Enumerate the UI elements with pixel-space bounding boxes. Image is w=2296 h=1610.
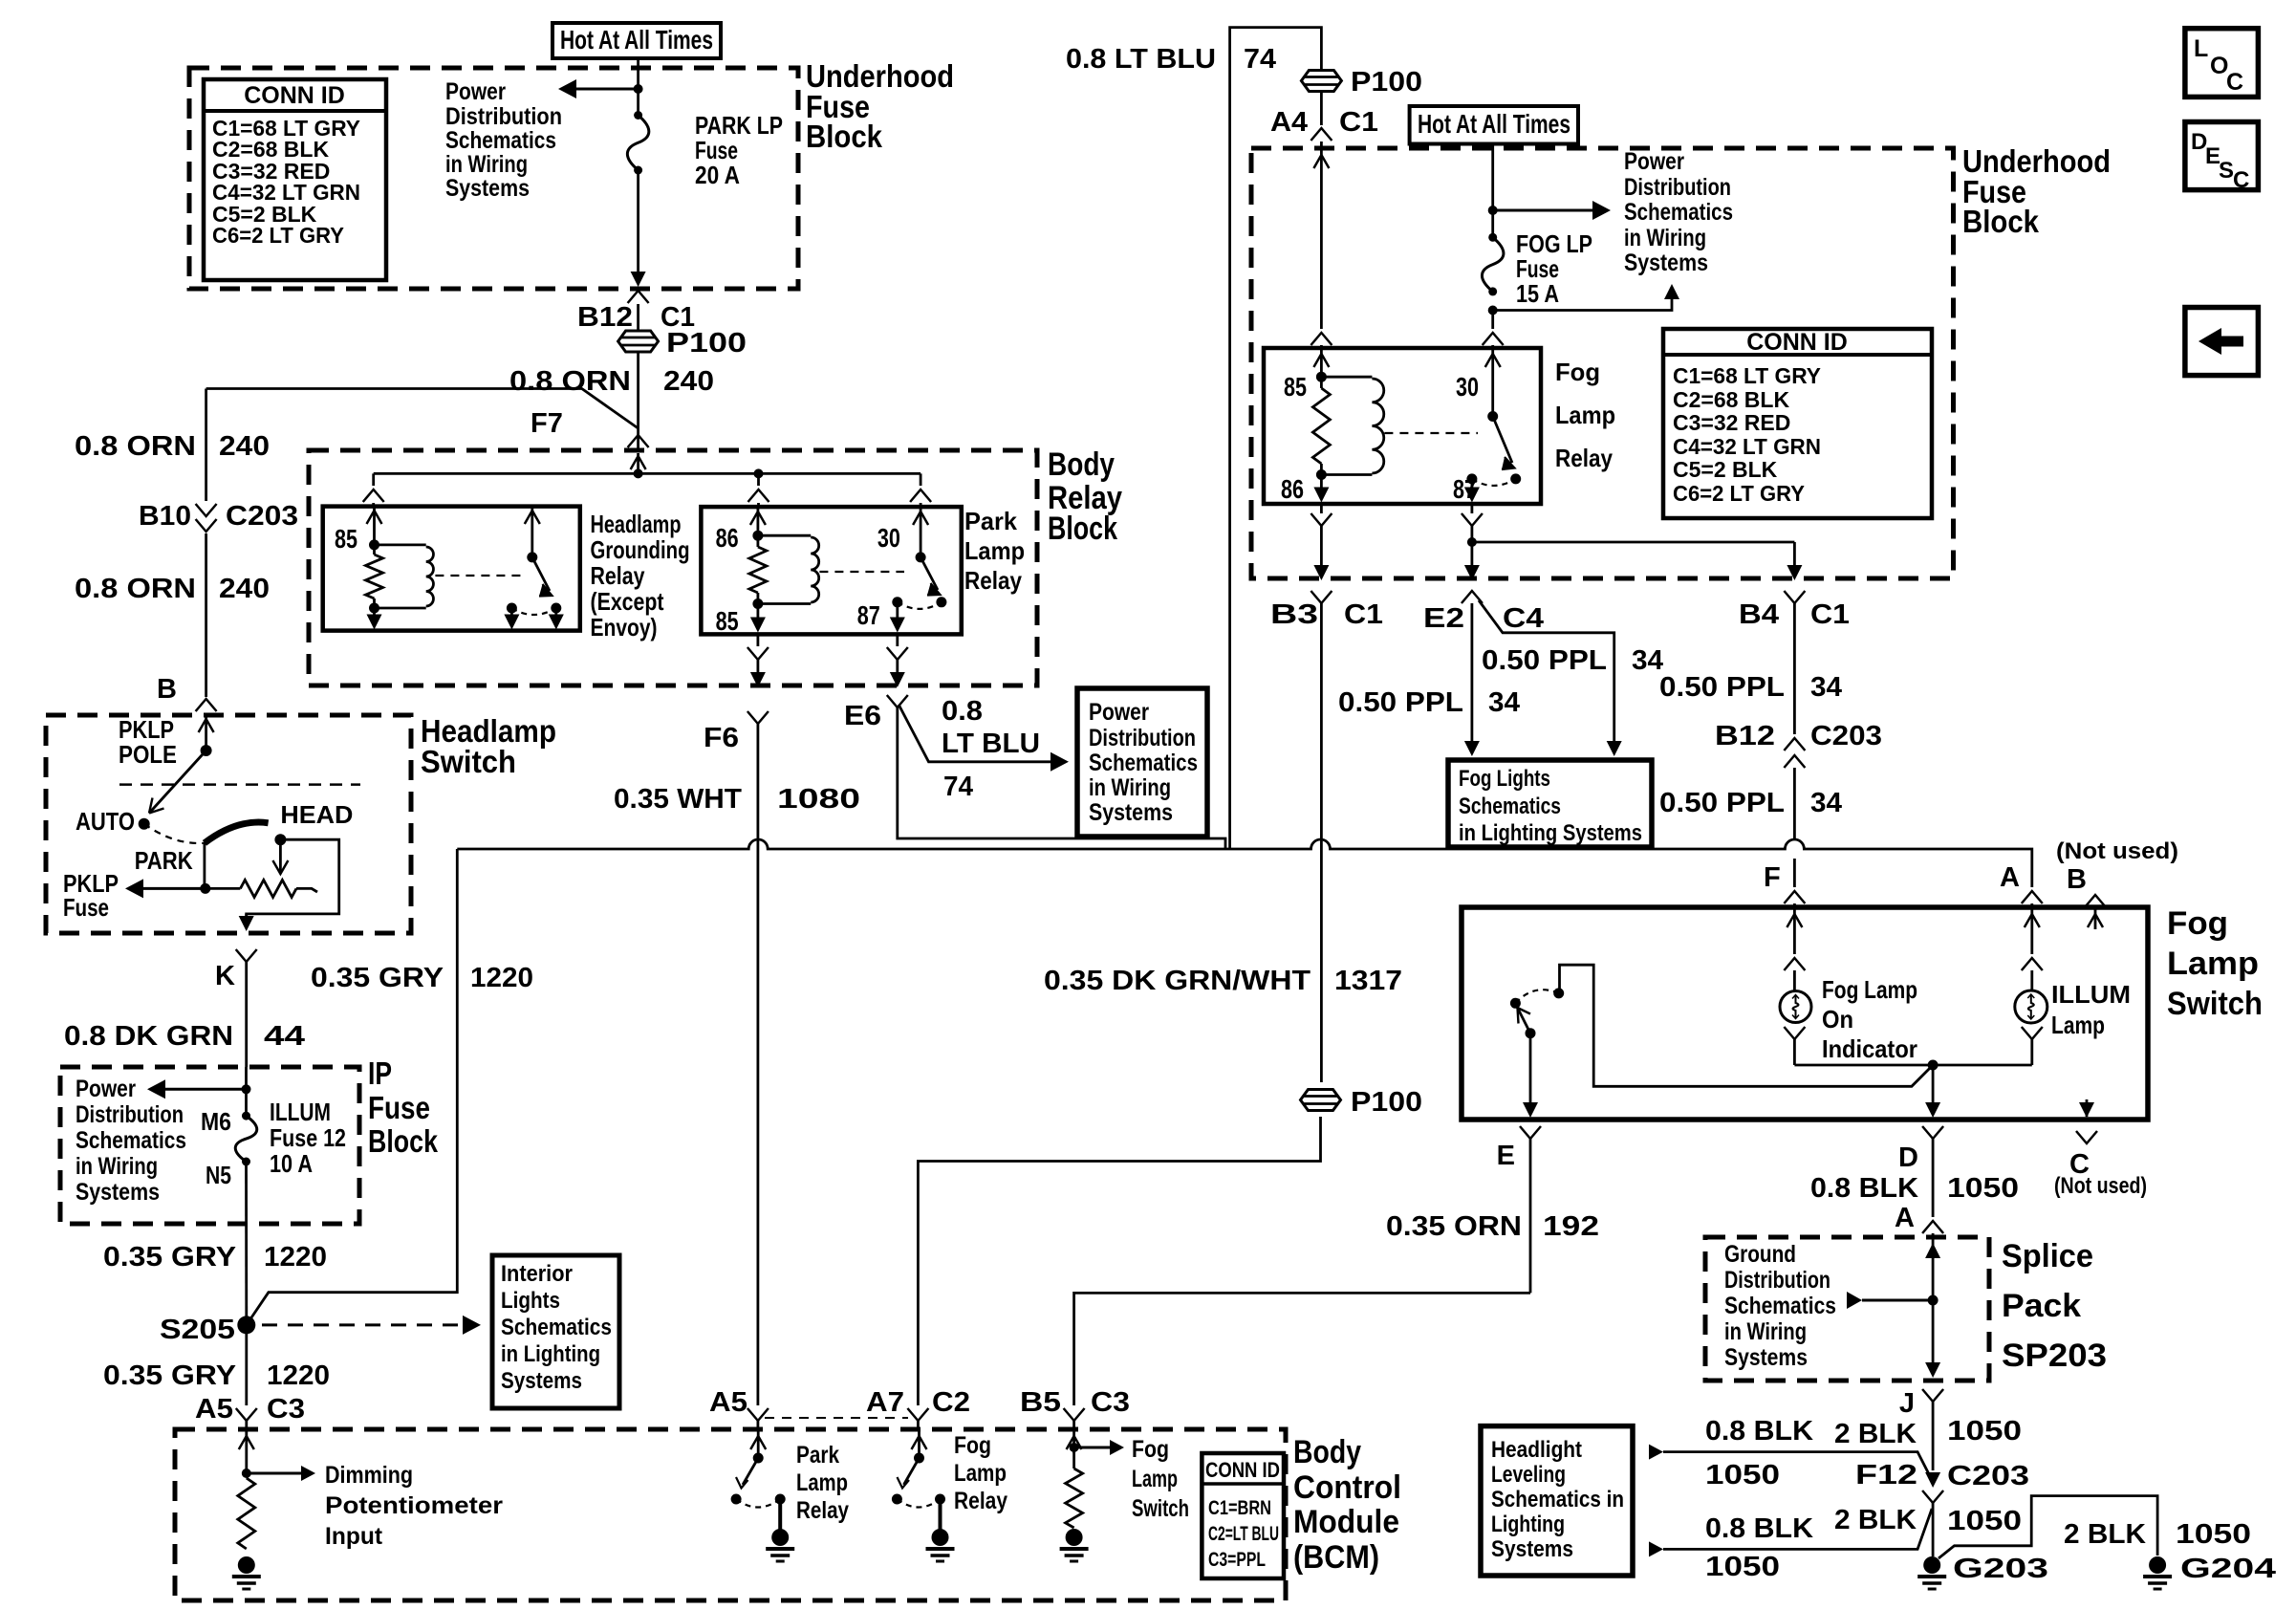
svg-text:Block: Block: [1048, 511, 1117, 547]
svg-text:A4: A4: [1270, 107, 1308, 138]
switch Park Lamp Relay (BCM): [757, 1429, 760, 1458]
svg-text:C1=68 LT GRY: C1=68 LT GRY: [1673, 363, 1821, 388]
box back arrow: [2185, 308, 2259, 376]
svg-text:B4: B4: [1739, 599, 1779, 630]
svg-text:G203: G203: [1953, 1554, 2048, 1584]
connector A (SP203): [1922, 1221, 1943, 1233]
svg-text:C1: C1: [1339, 107, 1378, 138]
ground G203: [1923, 1556, 1940, 1574]
resistor dimmer rheostat: [206, 887, 241, 890]
connector E2 / C4: [1462, 591, 1483, 603]
label Hot At All Times (right): [1410, 106, 1578, 144]
box Power Distribution Schematics in Wiring Systems (E6): [1077, 688, 1207, 837]
svg-text:PARK: PARK: [135, 846, 193, 875]
svg-text:Block: Block: [368, 1123, 439, 1159]
input Fog Lamp Switch (BCM): [1072, 1429, 1075, 1453]
svg-text:Hot At All Times: Hot At All Times: [560, 25, 713, 54]
wire rail to park lamp relay 86: [757, 473, 760, 486]
svg-text:1220: 1220: [267, 1360, 330, 1391]
svg-text:1050: 1050: [2176, 1519, 2251, 1550]
svg-text:Systems: Systems: [1089, 799, 1173, 826]
svg-text:Module: Module: [1293, 1504, 1399, 1540]
relay Headlamp Grounding Relay: [323, 507, 580, 631]
svg-text:C2=68 BLK: C2=68 BLK: [1673, 387, 1789, 412]
box Body Relay Block (dashed): [309, 450, 1037, 685]
svg-text:85: 85: [716, 606, 739, 636]
box Underhood Fuse Block (right, dashed): [1251, 148, 1954, 578]
svg-text:C: C: [2226, 69, 2243, 96]
svg-text:Fog Lamp: Fog Lamp: [1822, 975, 1917, 1004]
svg-text:POLE: POLE: [119, 740, 177, 769]
svg-text:2 BLK: 2 BLK: [1834, 1419, 1917, 1449]
svg-text:34: 34: [1810, 672, 1842, 703]
box Fog Lights Schematics in Lighting Systems: [1448, 760, 1652, 847]
wire headlight leveling lower: [1649, 1541, 1663, 1556]
svg-text:Lamp: Lamp: [1132, 1466, 1178, 1492]
svg-text:Schematics: Schematics: [445, 127, 556, 154]
svg-text:Power: Power: [1624, 148, 1684, 175]
svg-text:On: On: [1822, 1005, 1853, 1033]
contact HEAD: [274, 834, 286, 845]
box Fog Lamp Switch: [1462, 907, 2148, 1120]
svg-text:2 BLK: 2 BLK: [1834, 1505, 1917, 1535]
svg-text:A: A: [1895, 1203, 1915, 1233]
connector B3 / C1: [1310, 591, 1332, 603]
wire HEAD loop to switch output: [247, 839, 339, 920]
svg-text:Lamp: Lamp: [954, 1460, 1007, 1487]
box DESC: [2185, 122, 2259, 190]
svg-text:AUTO: AUTO: [76, 807, 135, 836]
svg-text:0.35 GRY: 0.35 GRY: [103, 1360, 236, 1391]
svg-text:F7: F7: [531, 408, 563, 439]
svg-text:in Wiring: in Wiring: [445, 151, 528, 178]
node fog feed junction: [1488, 206, 1498, 215]
connector B10 / C203: [196, 504, 217, 516]
svg-text:in Wiring: in Wiring: [1089, 774, 1171, 801]
lamp Fog Lamp On Indicator: [1780, 991, 1811, 1023]
svg-text:(Except: (Except: [591, 587, 664, 616]
wire E2 down: [1471, 542, 1474, 572]
svg-text:C2=LT BLU: C2=LT BLU: [1208, 1523, 1279, 1545]
svg-text:F6: F6: [704, 723, 739, 753]
box Interior Lights Schematics in Lighting Systems: [492, 1255, 619, 1408]
svg-text:0.50 PPL: 0.50 PPL: [1338, 687, 1463, 718]
wire A4 into fuse block to fog relay 85: [1320, 141, 1323, 148]
arrow to Power Distribution (left): [634, 84, 643, 94]
svg-text:Schematics: Schematics: [1089, 750, 1198, 776]
wire switch to E pin: [1529, 1033, 1532, 1115]
wire headlight leveling upper: [1649, 1445, 1663, 1460]
svg-text:C203: C203: [226, 501, 298, 532]
svg-text:34: 34: [1810, 788, 1842, 818]
fuse FOG LP Fuse 15 A: [1488, 233, 1497, 242]
arrow to Power Distribution (IP): [242, 1084, 251, 1094]
svg-text:Splice: Splice: [2002, 1238, 2093, 1274]
svg-text:Power: Power: [76, 1076, 136, 1102]
wire Hot At All Times to FOG LP fuse: [1491, 144, 1494, 238]
svg-text:Systems: Systems: [1724, 1344, 1808, 1371]
svg-text:Power: Power: [445, 78, 506, 105]
svg-text:Fog Lights: Fog Lights: [1459, 766, 1550, 792]
svg-text:0.8 BLK: 0.8 BLK: [1705, 1416, 1813, 1447]
splice S205: [237, 1316, 255, 1334]
svg-text:HEAD: HEAD: [280, 800, 353, 829]
svg-text:30: 30: [1456, 372, 1479, 402]
svg-text:Systems: Systems: [445, 175, 530, 202]
wire PARK pivot down to junction: [203, 843, 206, 889]
svg-text:1050: 1050: [1947, 1416, 2022, 1447]
svg-text:C3=PPL: C3=PPL: [1208, 1549, 1266, 1571]
connector B5 / C3: [1064, 1408, 1085, 1421]
svg-text:Distribution: Distribution: [1089, 725, 1196, 751]
connector B4 / C1: [1784, 591, 1805, 603]
svg-text:30: 30: [877, 523, 900, 553]
svg-text:Distribution: Distribution: [76, 1101, 184, 1128]
svg-text:M6: M6: [201, 1107, 231, 1136]
svg-text:(Not used): (Not used): [2054, 1173, 2147, 1199]
svg-text:Hot At All Times: Hot At All Times: [1418, 109, 1570, 139]
svg-text:Distribution: Distribution: [1724, 1267, 1830, 1294]
arrow to Power Distribution (fog upper): [1493, 209, 1598, 212]
node 87 junction: [1467, 537, 1477, 547]
svg-text:Relay: Relay: [964, 566, 1022, 595]
svg-text:Envoy): Envoy): [591, 613, 658, 642]
contact AUTO: [139, 818, 150, 830]
svg-text:87: 87: [857, 600, 880, 630]
wire B entry into headlamp switch: [205, 715, 207, 751]
wire illumination rail: [457, 839, 2032, 887]
node PKLP POLE: [201, 745, 212, 756]
svg-text:1080: 1080: [777, 784, 860, 815]
svg-text:240: 240: [663, 366, 714, 397]
svg-text:10 A: 10 A: [270, 1149, 313, 1178]
svg-text:A5: A5: [709, 1387, 747, 1418]
switch Fog Lamp Relay (BCM): [918, 1429, 921, 1458]
wire fuse to fog relay 30: [1491, 311, 1494, 330]
wire E6 light blue feed: [898, 707, 1225, 849]
wire headlamp switch output exit: [245, 914, 248, 921]
svg-text:F: F: [1764, 862, 1781, 893]
connector B12 / C1: [628, 291, 649, 303]
connector D: [1922, 1126, 1943, 1139]
svg-text:Distribution: Distribution: [445, 103, 562, 130]
connector F: [1784, 891, 1805, 903]
wire fog relay 86 to B3: [1320, 504, 1323, 513]
dashed travel arc AUTO to PARK: [144, 824, 205, 843]
svg-text:B: B: [2067, 864, 2087, 895]
svg-text:C1: C1: [1810, 599, 1850, 630]
wire 0.8 LT BLU 74 vertical: [1230, 28, 1322, 849]
svg-text:C4: C4: [1503, 603, 1544, 634]
lead E2 branch: [1479, 600, 1614, 750]
svg-text:Lighting: Lighting: [1491, 1512, 1565, 1537]
wire D pin: [1932, 1065, 1935, 1115]
connector E: [1520, 1126, 1541, 1139]
arrow to Power Distribution (fog lower): [1493, 292, 1672, 311]
svg-text:Headlight: Headlight: [1491, 1437, 1582, 1463]
splice P100 (middle): [1301, 1090, 1341, 1111]
svg-text:B5: B5: [1020, 1387, 1061, 1418]
lamp ILLUM Lamp: [2015, 990, 2047, 1023]
connector A4 / C1: [1320, 92, 1323, 125]
node rail junction park relay: [754, 468, 764, 478]
node lamp common junction: [1928, 1060, 1939, 1071]
svg-text:in Wiring: in Wiring: [1624, 225, 1706, 251]
splice P100 (top): [618, 331, 659, 352]
svg-text:0.35 DK GRN/WHT: 0.35 DK GRN/WHT: [1044, 966, 1310, 996]
svg-text:Park: Park: [796, 1442, 839, 1469]
svg-text:Lamp: Lamp: [2167, 946, 2259, 982]
svg-text:15 A: 15 A: [1516, 279, 1559, 308]
connector E6 exit: [896, 634, 899, 646]
svg-text:Interior: Interior: [501, 1261, 573, 1287]
svg-text:C1=BRN: C1=BRN: [1208, 1497, 1271, 1519]
svg-text:P100: P100: [1351, 67, 1422, 98]
svg-text:1050: 1050: [1947, 1173, 2019, 1204]
svg-text:C6=2 LT GRY: C6=2 LT GRY: [1673, 481, 1805, 506]
arrow to PKLP Fuse: [141, 887, 206, 890]
svg-text:1317: 1317: [1334, 966, 1402, 996]
svg-text:Relay: Relay: [796, 1497, 849, 1524]
connector A: [2030, 886, 2033, 889]
svg-text:in Wiring: in Wiring: [1724, 1318, 1807, 1345]
wire PPL to F pin: [1793, 859, 1796, 887]
svg-text:0.50 PPL: 0.50 PPL: [1659, 788, 1785, 818]
svg-text:B10: B10: [139, 501, 191, 532]
svg-text:Schematics in: Schematics in: [1491, 1487, 1624, 1512]
svg-text:K: K: [215, 961, 235, 991]
dashed arrow S205 to Interior Lights: [262, 1323, 465, 1326]
svg-text:P100: P100: [666, 328, 747, 359]
svg-text:Fuse: Fuse: [63, 893, 109, 922]
svg-text:CONN ID: CONN ID: [244, 82, 345, 109]
svg-text:CONN ID: CONN ID: [1746, 329, 1848, 356]
wire rail to park lamp relay 30: [920, 473, 922, 486]
svg-text:1050: 1050: [1705, 1552, 1780, 1582]
svg-text:Schematics: Schematics: [76, 1127, 186, 1154]
svg-text:Lights: Lights: [501, 1288, 560, 1314]
svg-text:C1: C1: [1344, 599, 1383, 630]
svg-text:1050: 1050: [1705, 1460, 1780, 1490]
svg-text:Pack: Pack: [2002, 1288, 2081, 1324]
svg-text:1050: 1050: [1947, 1506, 2022, 1536]
node PKLP fuse junction: [200, 883, 210, 894]
svg-text:1220: 1220: [470, 963, 533, 993]
svg-text:240: 240: [219, 574, 270, 604]
table CONN ID (underhood left): [204, 79, 386, 280]
wire pole to AUTO arm: [149, 751, 206, 814]
table CONN ID (BCM): [1202, 1453, 1284, 1578]
svg-text:Body: Body: [1048, 446, 1115, 483]
svg-text:0.8 ORN: 0.8 ORN: [75, 574, 196, 604]
svg-text:85: 85: [1284, 372, 1307, 402]
arrow ground distribution lead: [1862, 1299, 1933, 1302]
svg-text:Fog: Fog: [1132, 1436, 1169, 1463]
svg-text:Potentiometer: Potentiometer: [325, 1492, 503, 1519]
svg-text:Power: Power: [1089, 699, 1149, 726]
connector K: [236, 949, 257, 962]
svg-text:44: 44: [264, 1021, 305, 1052]
lead E6 label arrow: [899, 705, 1056, 762]
stub B pin inside switch: [2094, 907, 2097, 929]
svg-text:A5: A5: [195, 1394, 233, 1425]
box IP Fuse Block (dashed): [60, 1067, 359, 1224]
wire P100 down to F7 with branch: [637, 352, 639, 450]
wire HEAD wiper arrow to rheostat: [279, 839, 282, 874]
svg-text:C4=32 LT GRN: C4=32 LT GRN: [1673, 434, 1821, 459]
svg-text:in Lighting: in Lighting: [501, 1341, 600, 1367]
svg-text:G204: G204: [2180, 1554, 2276, 1584]
box Headlamp Switch (dashed): [46, 715, 411, 933]
svg-text:Schematics: Schematics: [1459, 794, 1561, 819]
svg-text:74: 74: [943, 772, 973, 802]
wire 0.35 GRY 1220 branch to S205: [247, 849, 458, 1325]
svg-text:C203: C203: [1810, 721, 1882, 751]
svg-text:J: J: [1899, 1388, 1915, 1419]
relay Park Lamp Relay: [701, 507, 961, 634]
svg-text:B3: B3: [1270, 599, 1318, 630]
svg-text:F12: F12: [1855, 1460, 1917, 1490]
svg-text:L: L: [2194, 35, 2208, 62]
svg-text:1220: 1220: [264, 1242, 327, 1273]
svg-text:86: 86: [716, 523, 739, 553]
svg-text:Systems: Systems: [1491, 1536, 1573, 1562]
svg-text:Switch: Switch: [2167, 986, 2263, 1022]
svg-text:0.8 BLK: 0.8 BLK: [1810, 1173, 1918, 1204]
svg-text:Systems: Systems: [501, 1368, 582, 1394]
wire F pin to indicator lamp: [1793, 907, 1796, 954]
wire fog relay 87 down: [1471, 504, 1474, 513]
svg-text:2 BLK: 2 BLK: [2064, 1519, 2146, 1550]
svg-text:Headlamp: Headlamp: [591, 510, 682, 538]
svg-text:Block: Block: [1962, 204, 2040, 239]
connector F6 exit: [757, 634, 760, 646]
wire 87 junction to B4: [1472, 541, 1795, 544]
svg-text:0.50 PPL: 0.50 PPL: [1482, 645, 1607, 676]
wire rail to headlamp grounding relay 85: [372, 473, 375, 486]
svg-text:A: A: [2000, 862, 2020, 893]
connector A5 / C3 (dimmer): [236, 1408, 257, 1421]
svg-text:Lamp: Lamp: [1555, 401, 1615, 429]
wiper arc PARK-HEAD: [205, 822, 269, 843]
connector C (not used): [2086, 1099, 2089, 1117]
svg-text:0.8 DK GRN: 0.8 DK GRN: [64, 1021, 233, 1052]
connector F7 into Body Relay Block: [628, 435, 649, 447]
fuse ILLUM Fuse 12 10 A: [242, 1112, 250, 1120]
relay Fog Lamp Relay: [1264, 348, 1541, 504]
box Headlight Leveling Schematics: [1481, 1426, 1633, 1576]
wire left orange vertical: [205, 389, 207, 502]
dashed connector span A5-A7: [765, 1417, 908, 1419]
svg-text:E6: E6: [844, 701, 881, 731]
wire ILLUM fuse to S205: [245, 1162, 248, 1318]
splice P100 (A4): [1301, 71, 1341, 92]
svg-text:Control: Control: [1293, 1469, 1401, 1506]
svg-text:(BCM): (BCM): [1293, 1539, 1379, 1576]
svg-text:Leveling: Leveling: [1491, 1462, 1566, 1488]
svg-text:86: 86: [1281, 474, 1304, 504]
svg-text:192: 192: [1543, 1211, 1599, 1242]
wire PARK LP fuse to fuse-block edge: [637, 170, 639, 272]
svg-text:Body: Body: [1293, 1434, 1361, 1470]
svg-text:0.35 GRY: 0.35 GRY: [103, 1242, 236, 1273]
svg-text:A7: A7: [866, 1387, 904, 1418]
dashed inner boundary: [119, 783, 360, 786]
svg-text:Fog: Fog: [1555, 358, 1600, 386]
svg-text:Schematics: Schematics: [501, 1315, 612, 1340]
svg-text:Dimming: Dimming: [325, 1462, 413, 1489]
svg-text:Fog: Fog: [2167, 905, 2228, 942]
wire to G204: [1939, 1496, 2157, 1558]
svg-text:B12: B12: [577, 302, 633, 333]
svg-text:85: 85: [335, 524, 357, 554]
svg-text:LT BLU: LT BLU: [942, 729, 1040, 759]
svg-text:C203: C203: [1947, 1461, 2029, 1491]
node rail junction F7: [634, 468, 643, 478]
switch fog lamp switch contacts: [1510, 998, 1521, 1009]
wire A pin to ILLUM lamp: [2030, 907, 2033, 954]
box Body Control Module (dashed): [175, 1429, 1286, 1600]
svg-text:0.35 ORN: 0.35 ORN: [1386, 1211, 1522, 1242]
svg-text:E: E: [1497, 1141, 1515, 1171]
svg-text:ILLUM: ILLUM: [2051, 980, 2131, 1009]
svg-text:CONN ID: CONN ID: [1205, 1458, 1280, 1482]
svg-text:Switch: Switch: [1132, 1495, 1189, 1522]
svg-text:Lamp: Lamp: [796, 1469, 848, 1496]
wire B3 to A7: [918, 1117, 1320, 1405]
table CONN ID (underhood right): [1663, 329, 1932, 518]
wire K to ILLUM fuse: [245, 1067, 248, 1116]
node splice SP203: [1928, 1295, 1939, 1306]
box Underhood Fuse Block (left, dashed): [189, 68, 798, 289]
svg-text:0.8 BLK: 0.8 BLK: [1705, 1513, 1813, 1544]
svg-text:C5=2 BLK: C5=2 BLK: [1673, 457, 1778, 482]
wire relay feed rail: [374, 472, 921, 475]
svg-text:D: D: [1898, 1142, 1918, 1173]
svg-text:240: 240: [219, 431, 270, 462]
svg-text:Distribution: Distribution: [1624, 174, 1731, 201]
svg-text:0.8 ORN: 0.8 ORN: [75, 431, 196, 462]
svg-text:C3: C3: [1091, 1387, 1130, 1418]
ground G204: [2149, 1556, 2166, 1574]
svg-text:C3=32 RED: C3=32 RED: [1673, 410, 1790, 435]
connector A7 / C2: [907, 1408, 928, 1421]
svg-text:Relay: Relay: [954, 1488, 1007, 1514]
wire lamp common: [1794, 1064, 2031, 1067]
svg-text:Fuse 12: Fuse 12: [270, 1123, 346, 1152]
svg-text:34: 34: [1488, 687, 1520, 718]
svg-text:0.50 PPL: 0.50 PPL: [1659, 672, 1785, 703]
connector F12 / C203: [1925, 1472, 1940, 1488]
svg-text:0.8 ORN: 0.8 ORN: [509, 366, 631, 397]
svg-text:0.35 GRY: 0.35 GRY: [311, 963, 444, 993]
connector B12 / C203: [1784, 738, 1805, 751]
svg-text:Lamp: Lamp: [2051, 1011, 2105, 1039]
svg-text:(Not used): (Not used): [2056, 838, 2178, 864]
svg-text:Grounding: Grounding: [591, 535, 690, 564]
svg-text:SP203: SP203: [2002, 1338, 2107, 1374]
svg-text:Lamp: Lamp: [964, 536, 1025, 565]
svg-text:0.8 LT BLU: 0.8 LT BLU: [1066, 44, 1216, 75]
connector A5 (BCM): [747, 1408, 769, 1421]
svg-text:Schematics: Schematics: [1724, 1293, 1836, 1319]
svg-text:Schematics: Schematics: [1624, 199, 1733, 226]
potentiometer dimming input: [245, 1429, 248, 1473]
svg-text:Park: Park: [964, 507, 1018, 535]
svg-text:B12: B12: [1715, 721, 1775, 751]
svg-text:Block: Block: [806, 119, 883, 154]
svg-text:B: B: [157, 674, 177, 705]
